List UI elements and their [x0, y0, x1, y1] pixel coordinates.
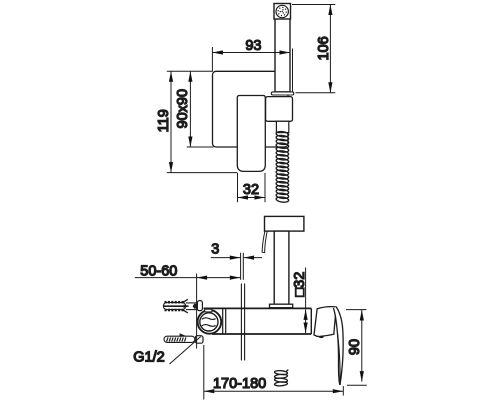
dimension 93 line: [212, 52, 290, 54]
valve outer circle: [198, 310, 222, 334]
svg-text:90x90: 90x90: [175, 89, 191, 129]
stem base flange: [270, 304, 293, 308]
wall surface reference line: [196, 274, 198, 349]
shower hose coil (front view): [276, 131, 289, 203]
upper nipple tip chevrons: [182, 299, 188, 303]
lever set screw bump: [319, 336, 324, 338]
dimension 170-180 line: [204, 390, 343, 392]
dimension 32 line: [238, 197, 266, 199]
wall hook (side view): [262, 231, 267, 252]
grip body (front view): [237, 95, 265, 171]
svg-text:90: 90: [347, 339, 363, 355]
mixer body: [204, 308, 312, 334]
svg-text:119: 119: [156, 109, 172, 132]
dimension 90 line: [361, 310, 363, 382]
dimension 119 line: [170, 71, 172, 172]
dimension 119 bottom extension line: [167, 172, 238, 174]
dimension square-32 arrows: [305, 309, 307, 333]
lower fitting top arrow: [180, 333, 187, 336]
valve slot waves: [202, 318, 216, 320]
svg-text:93: 93: [245, 38, 261, 54]
dimension 90x90 line: [189, 71, 191, 147]
upper wall nut: [197, 301, 202, 311]
lower wall nut: [195, 336, 203, 344]
svg-text:32: 32: [243, 182, 259, 198]
dimension 90x90 bottom extension line: [187, 146, 214, 148]
dimension 170-180 left extension: [203, 345, 205, 400]
dimension 106 line: [329, 5, 331, 93]
dimension 90 top extension: [346, 309, 367, 311]
upper supply fitting pipe: [186, 302, 197, 304]
valve top tab: [205, 309, 212, 312]
wall plate 90x90 front view: [213, 71, 289, 147]
spray face circle: [276, 5, 288, 17]
hose connector below holder: [276, 121, 288, 132]
lower supply fitting tube: [164, 336, 195, 342]
svg-text:106: 106: [316, 36, 332, 60]
svg-text:3: 3: [211, 241, 219, 257]
dimension square-32 vertical line: [305, 268, 307, 308]
dimension 90 bottom extension: [347, 384, 367, 386]
label G1/2 leader: [170, 337, 201, 365]
valve inner circle: [200, 313, 218, 331]
svg-text:170-180: 170-180: [213, 376, 266, 392]
hose cut squiggle: [274, 370, 288, 387]
dimension 106 bottom extension: [296, 92, 336, 94]
upper fitting flow arrow at wall: [193, 304, 198, 309]
svg-text:□32: □32: [292, 272, 308, 297]
dimension 50-60 line: [135, 277, 197, 279]
dimension 170-180 right extension: [342, 386, 344, 396]
hand shower head (side view): [265, 216, 304, 231]
dimension 93 left extension: [211, 47, 213, 71]
lever blade: [333, 307, 343, 385]
dimension 119 top extension line: [167, 70, 213, 72]
dimension 32 right extension: [264, 173, 266, 202]
dimension 32 left extension: [237, 173, 239, 202]
holder block on plate: [266, 97, 293, 122]
dimension 106 top extension: [292, 4, 335, 6]
lower fitting thread hatch: [167, 337, 186, 341]
upper supply nipple (threaded): [164, 303, 186, 310]
thin wall panel lower section: [240, 284, 242, 361]
hand shower stem (side view): [274, 231, 289, 304]
hand shower handle (front view): [275, 19, 290, 92]
svg-text:50-60: 50-60: [140, 263, 177, 279]
lever neck: [314, 307, 336, 337]
hand shower head (front view): [274, 4, 291, 20]
upper nipple center line: [163, 305, 188, 307]
dimension 93 right extension: [292, 49, 294, 92]
handle bottom flange: [271, 92, 294, 95]
thin wall panel upper section (3mm): [240, 253, 242, 280]
svg-text:G1/2: G1/2: [133, 350, 164, 366]
dimension 3 left line: [211, 257, 241, 259]
spray nozzle dots: [277, 7, 286, 16]
dimension 3 right line: [244, 257, 262, 259]
